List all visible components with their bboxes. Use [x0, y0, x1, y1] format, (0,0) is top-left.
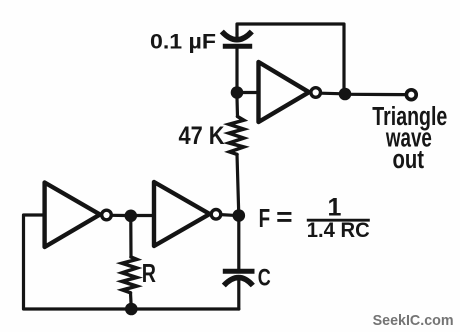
wire node D to inverter U3 input — [137, 214, 154, 217]
resistor R zigzag — [122, 257, 137, 293]
inverter U1 triangle — [259, 62, 310, 122]
inverter U3 output bubble — [211, 210, 221, 220]
resistor 47K zigzag — [229, 117, 244, 155]
wire C1 bottom plate to node A — [235, 48, 238, 93]
svg-text:1.4 RC: 1.4 RC — [307, 218, 370, 242]
wire resistor 47K to node F — [237, 154, 239, 215]
capacitor C1 0.1uF straight plate — [223, 44, 252, 49]
wire C1 top plate stub — [235, 34, 238, 40]
svg-text:out: out — [393, 146, 425, 174]
wire capacitor C to bottom rail — [237, 280, 240, 309]
capacitor C curved plate — [224, 278, 253, 286]
inverter U2 output bubble — [102, 210, 112, 220]
wire U2 bubble to node D — [111, 214, 125, 217]
terminal Triangle wave out — [406, 90, 416, 100]
wire U1 bubble to node B — [321, 92, 345, 96]
wire top feedback loop (cap top to output node) — [237, 24, 344, 93]
capacitor C1 0.1uF curved plate — [222, 32, 252, 40]
inverter U1 output bubble — [311, 88, 321, 98]
node A junction dot — [231, 86, 244, 99]
node E bottom junction dot — [125, 303, 138, 316]
svg-text:0.1 µF: 0.1 µF — [150, 29, 216, 53]
svg-text:47 K: 47 K — [179, 122, 225, 150]
node F junction dot — [233, 209, 246, 222]
wire node A down to resistor 47K — [235, 98, 239, 117]
wire node D down to resistor R — [129, 222, 132, 257]
node D junction dot — [125, 210, 138, 223]
svg-text:F: F — [259, 205, 271, 233]
svg-text:SeekIC.com: SeekIC.com — [373, 312, 454, 329]
wire node A to inverter U1 input — [237, 91, 259, 94]
capacitor C straight plate — [223, 269, 255, 274]
wire left feedback (U2 input, left rail, bottom rail) — [24, 215, 239, 309]
svg-text:R: R — [142, 258, 156, 288]
svg-text:C: C — [258, 264, 271, 291]
fraction bar of formula — [307, 219, 370, 222]
wire resistor R to bottom rail — [129, 293, 133, 309]
inverter U3 triangle — [154, 182, 210, 246]
node B junction dot — [339, 88, 352, 101]
wire node F down to capacitor C — [237, 216, 240, 270]
inverter U2 triangle — [45, 183, 100, 248]
svg-text:=: = — [276, 204, 293, 232]
svg-text:1: 1 — [328, 193, 342, 221]
wire U3 bubble to node F — [221, 213, 233, 217]
wire node B to output terminal — [351, 93, 405, 96]
